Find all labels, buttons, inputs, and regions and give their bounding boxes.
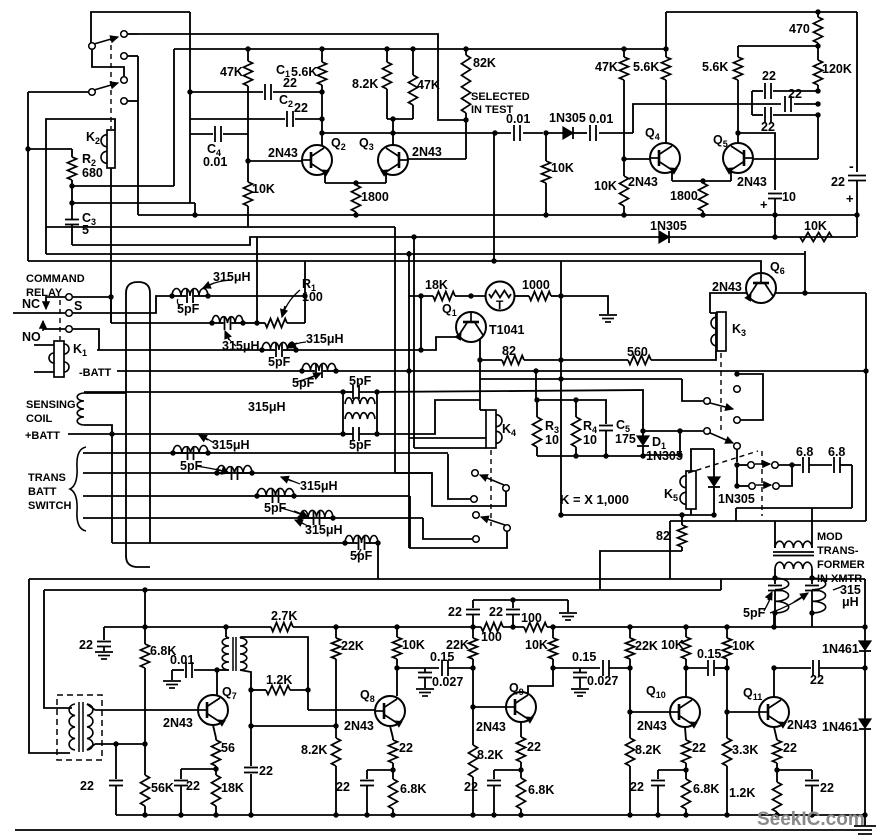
node xyxy=(492,130,497,135)
transistor Q10 xyxy=(670,697,700,727)
node xyxy=(463,117,468,122)
node xyxy=(734,371,739,376)
node xyxy=(815,43,820,48)
svg-text:680: 680 xyxy=(82,166,103,180)
diode 1N461 a xyxy=(859,641,871,650)
wire SWA pole xyxy=(395,473,506,506)
tank right coil xyxy=(812,578,826,613)
node xyxy=(627,665,632,670)
wire to caps xyxy=(633,104,781,133)
contact pole SWA xyxy=(503,485,510,492)
wire R2 line xyxy=(72,185,174,187)
wire top right line xyxy=(666,11,857,13)
wire n2 east xyxy=(243,322,257,324)
node xyxy=(663,46,668,51)
resistor 82K xyxy=(465,49,467,55)
resistor 2.7K xyxy=(271,623,293,632)
wire Q8 emitter xyxy=(390,726,393,738)
ground right xyxy=(864,815,866,826)
node xyxy=(724,665,729,670)
LC unit n3 xyxy=(259,347,264,352)
resistor 47K c xyxy=(623,49,625,57)
wire xyxy=(736,449,738,462)
wire y350 line xyxy=(97,349,262,351)
dashed vert xyxy=(761,451,763,516)
svg-text:22: 22 xyxy=(448,605,462,619)
node Q4 base xyxy=(621,156,626,161)
wire K1 leads xyxy=(34,344,54,346)
svg-text:5pF: 5pF xyxy=(349,374,372,388)
node xyxy=(491,812,496,817)
node xyxy=(410,46,415,51)
node xyxy=(187,89,192,94)
node xyxy=(142,624,147,629)
resistor 56 xyxy=(212,740,221,766)
svg-text:470: 470 xyxy=(789,22,810,36)
wire C3 line xyxy=(72,202,195,204)
contact xyxy=(748,462,755,469)
capacitor 6.8 b xyxy=(833,457,835,473)
wire Q4 base xyxy=(624,158,650,160)
svg-text:2.7K: 2.7K xyxy=(271,609,297,623)
pointer u3cap xyxy=(281,508,305,516)
contact xyxy=(66,294,73,301)
svg-text:5.6K: 5.6K xyxy=(291,65,317,79)
node xyxy=(406,368,411,373)
svg-text:22: 22 xyxy=(762,69,776,83)
pointer n2 xyxy=(226,333,236,346)
capacitor 22 q9c xyxy=(493,770,495,779)
wire K4 top xyxy=(480,409,486,411)
svg-text:8.2K: 8.2K xyxy=(635,743,661,757)
node xyxy=(248,812,253,817)
node xyxy=(394,624,399,629)
switch SWA contact xyxy=(472,470,479,477)
node xyxy=(774,767,779,772)
svg-text:175: 175 xyxy=(615,432,636,446)
resistor 10K q10 xyxy=(685,627,687,637)
svg-text:5pF: 5pF xyxy=(177,302,200,316)
arrow NC xyxy=(45,300,47,309)
node xyxy=(558,293,563,298)
resistor 6.8K in xyxy=(144,590,146,644)
capacitor 0.01 b xyxy=(589,125,591,141)
svg-text:82K: 82K xyxy=(473,56,496,70)
svg-text:8.2K: 8.2K xyxy=(301,743,327,757)
transformer T1 box xyxy=(57,695,102,760)
node xyxy=(470,624,475,629)
wire Q5 emitter xyxy=(730,170,732,181)
transistor Q6 xyxy=(746,273,776,303)
svg-text:22: 22 xyxy=(831,175,845,189)
resistor 8.2K q8 xyxy=(335,726,337,738)
dashed diag xyxy=(688,451,758,473)
resistor 82 xyxy=(502,356,524,365)
wire stair drop2 xyxy=(669,521,671,579)
node xyxy=(333,723,338,728)
wire x414 xyxy=(413,237,415,448)
wire ladder1 xyxy=(83,452,448,454)
relay K3 xyxy=(717,312,726,351)
wire line C xyxy=(174,48,666,50)
dashed K3 link xyxy=(720,353,722,432)
svg-text:8.2K: 8.2K xyxy=(352,77,378,91)
wire Q7 emitter xyxy=(213,725,216,738)
resistor 18K q7 xyxy=(212,775,221,806)
svg-text:18K: 18K xyxy=(425,278,448,292)
resistor 22K q10 xyxy=(629,627,631,638)
node xyxy=(683,812,688,817)
capacitor 0.15 b xyxy=(602,660,604,676)
svg-text:5pF: 5pF xyxy=(350,549,373,563)
wire 18K line xyxy=(409,295,433,297)
wire 10 stub xyxy=(774,215,776,237)
transistor Q5 xyxy=(723,143,753,173)
svg-text:8.2K: 8.2K xyxy=(477,748,503,762)
resistor 5.6K c xyxy=(662,57,671,80)
svg-text:10: 10 xyxy=(545,433,559,447)
wire y46 xyxy=(738,45,818,47)
resistor R2 xyxy=(71,149,73,157)
node R2 feed xyxy=(25,146,30,151)
pointer arrow xyxy=(764,594,772,611)
dashed K4 link xyxy=(490,450,492,526)
wire lineC drop xyxy=(173,49,175,186)
svg-text:T: T xyxy=(496,298,504,312)
wire n7 drop xyxy=(377,543,379,579)
transistor Q8 xyxy=(375,696,405,726)
svg-text:56: 56 xyxy=(221,741,235,755)
wire line B xyxy=(138,34,466,120)
node xyxy=(418,293,423,298)
LC unit u3 xyxy=(254,493,259,498)
wire to R2 xyxy=(28,148,72,150)
wire S contact xyxy=(13,312,66,314)
wire R1 up xyxy=(304,296,306,323)
svg-text:82: 82 xyxy=(656,529,670,543)
wire Q5 base xyxy=(817,115,819,159)
wire drop x666 xyxy=(665,12,667,57)
node xyxy=(815,88,820,93)
capacitor 6.8 a xyxy=(802,457,804,473)
wire T1 sec top xyxy=(87,704,95,710)
brace xyxy=(70,447,86,531)
node xyxy=(734,462,739,467)
svg-text:315μH: 315μH xyxy=(300,479,338,493)
wire hook q8 xyxy=(367,769,393,771)
node xyxy=(815,9,820,14)
relay K5 xyxy=(686,471,696,509)
node xyxy=(700,212,705,217)
node xyxy=(390,767,395,772)
switch S2 pivot xyxy=(89,89,96,96)
contact xyxy=(121,98,128,105)
svg-text:2N43: 2N43 xyxy=(344,719,374,733)
pointer arrow xyxy=(770,595,806,613)
resistor 56K xyxy=(141,775,150,806)
svg-text:10K: 10K xyxy=(252,182,275,196)
wire K3 contact hook xyxy=(737,374,763,420)
wire T2 sec bot xyxy=(240,670,251,690)
svg-text:6.8K: 6.8K xyxy=(528,783,554,797)
node xyxy=(302,293,307,298)
ground xyxy=(571,688,589,690)
svg-text:0.01: 0.01 xyxy=(203,155,227,169)
node xyxy=(683,767,688,772)
svg-text:1000: 1000 xyxy=(522,278,550,292)
resistor 100 a xyxy=(481,623,503,632)
contact S xyxy=(66,310,73,317)
svg-text:μH: μH xyxy=(842,595,859,609)
wire Q9 emitter xyxy=(520,722,522,737)
wire +BATT drop xyxy=(111,434,113,543)
node Q2 base xyxy=(245,158,250,163)
diode 1N305 xyxy=(546,132,563,134)
ground xyxy=(599,314,617,316)
svg-text:1N305: 1N305 xyxy=(646,449,683,463)
LC unit u1 xyxy=(170,450,175,455)
node xyxy=(558,376,563,381)
wire y261 line xyxy=(28,261,761,273)
wire Q4 emitter xyxy=(671,170,673,181)
wire y668 d xyxy=(774,667,811,669)
wire ladder3 xyxy=(83,495,410,497)
capacitor 22 q10c xyxy=(657,770,659,779)
relay K2 xyxy=(107,130,115,168)
wire contact drops xyxy=(127,55,138,57)
resistor 5.6K xyxy=(321,49,323,62)
wire y379 line xyxy=(480,378,682,380)
resistor 560 xyxy=(628,356,651,365)
svg-text:10: 10 xyxy=(583,433,597,447)
node xyxy=(543,212,548,217)
node xyxy=(319,46,324,51)
node xyxy=(809,812,814,817)
contact pole1 xyxy=(704,398,711,405)
svg-text:47K: 47K xyxy=(595,60,618,74)
contact xyxy=(121,77,128,84)
wire left edge a xyxy=(29,579,70,753)
LC unit u4 xyxy=(297,515,302,520)
node xyxy=(683,624,688,629)
sensing coil xyxy=(77,393,84,425)
wire caps loop xyxy=(751,91,753,115)
pointer u3 xyxy=(284,478,300,484)
node xyxy=(677,452,682,457)
capacitor 22 q7e xyxy=(180,769,182,779)
capacitor 10 xyxy=(768,193,782,195)
node xyxy=(411,234,416,239)
node xyxy=(248,687,253,692)
MOD transformer xyxy=(774,521,776,548)
node xyxy=(109,431,114,436)
wire Q9 collector xyxy=(528,668,553,694)
node xyxy=(735,130,740,135)
node xyxy=(854,212,859,217)
svg-text:10K: 10K xyxy=(525,638,548,652)
capacitor 22 top xyxy=(752,90,763,92)
wire big verticals xyxy=(126,556,150,567)
wire contact to line B xyxy=(128,33,138,35)
ground xyxy=(559,612,577,614)
node xyxy=(550,665,555,670)
svg-text:5pF: 5pF xyxy=(180,459,203,473)
transistor Q7 xyxy=(198,695,228,725)
wire x536 riser xyxy=(535,371,537,400)
transformer T2 xyxy=(225,627,227,637)
wire tank to rail xyxy=(774,613,776,627)
pointer R1 xyxy=(283,290,300,314)
node xyxy=(418,347,423,352)
LC unit n1 xyxy=(169,293,174,298)
svg-text:+: + xyxy=(760,197,768,212)
svg-text:2N43: 2N43 xyxy=(712,280,742,294)
capacitor 22 in xyxy=(115,744,117,779)
node xyxy=(390,116,395,121)
capacitor 22 q7c xyxy=(250,726,252,766)
svg-text:2N43: 2N43 xyxy=(163,716,193,730)
wire K5 top xyxy=(691,449,714,471)
arm pole1 xyxy=(710,403,733,409)
wire ladder2 xyxy=(83,472,432,474)
wire K2 bottom xyxy=(110,168,112,323)
node xyxy=(213,766,218,771)
wire to gnd xyxy=(561,296,608,314)
resistor 22 q10e xyxy=(682,740,691,763)
node xyxy=(390,812,395,817)
wire Q6 collector xyxy=(776,292,866,294)
wire SWB NC xyxy=(423,518,472,539)
contact xyxy=(749,483,756,490)
svg-text:10K: 10K xyxy=(551,161,574,175)
wire Q11 base xyxy=(727,711,759,713)
pointer u1cap xyxy=(196,466,226,472)
resistor 10K xyxy=(247,161,249,182)
resistor 22 q11e xyxy=(773,740,782,763)
wire xyxy=(472,668,474,707)
svg-text:22: 22 xyxy=(186,779,200,793)
resistor 82 K5 xyxy=(681,515,683,525)
wire xyxy=(778,464,801,466)
svg-text:2N43: 2N43 xyxy=(476,720,506,734)
capacitor 22 right xyxy=(848,175,866,177)
svg-text:22: 22 xyxy=(399,741,413,755)
resistor 1800 xyxy=(352,185,361,212)
svg-text:6.8: 6.8 xyxy=(796,445,813,459)
node xyxy=(862,812,867,817)
contact pole2 xyxy=(704,428,711,435)
svg-text:47K: 47K xyxy=(220,65,243,79)
svg-text:56K: 56K xyxy=(151,781,174,795)
pointer n1cap xyxy=(177,299,180,307)
svg-text:22: 22 xyxy=(788,87,802,101)
node xyxy=(862,624,867,629)
capacitor 22 out xyxy=(812,660,814,676)
wire Q8 base xyxy=(307,690,309,710)
wire rail mid xyxy=(293,626,481,628)
node xyxy=(627,624,632,629)
pointer n7cap xyxy=(356,549,361,556)
wire Q11 collector xyxy=(773,668,775,697)
capacitor 22 bot xyxy=(752,114,763,116)
svg-text:SWITCH: SWITCH xyxy=(28,500,71,512)
svg-text:22: 22 xyxy=(630,780,644,794)
resistor 100 b xyxy=(524,623,547,632)
LC unit n2 xyxy=(209,320,214,325)
wire row2 hook xyxy=(779,465,792,486)
wire SWB pole xyxy=(410,496,507,548)
node xyxy=(178,812,183,817)
svg-text:100: 100 xyxy=(521,611,542,625)
wire T2 sec top xyxy=(240,637,308,690)
node xyxy=(700,178,705,183)
svg-text:5.6K: 5.6K xyxy=(633,60,659,74)
svg-text:10K: 10K xyxy=(594,179,617,193)
resistor 8.2K xyxy=(386,49,388,62)
wire x852 drop xyxy=(851,465,853,508)
node xyxy=(518,812,523,817)
node xyxy=(192,212,197,217)
resistor 6.8K q8 xyxy=(389,779,398,809)
svg-text:SENSING: SENSING xyxy=(26,399,76,411)
node xyxy=(108,294,113,299)
pointer u1 xyxy=(202,436,214,443)
svg-text:FORMER: FORMER xyxy=(817,559,865,571)
relay K4 xyxy=(486,410,496,448)
svg-text:2N43: 2N43 xyxy=(737,175,767,189)
node xyxy=(245,46,250,51)
svg-text:0.15: 0.15 xyxy=(697,647,721,661)
node xyxy=(69,183,74,188)
switch SWA arm xyxy=(480,475,504,485)
node xyxy=(724,812,729,817)
wire y434 east xyxy=(377,400,480,434)
svg-text:22: 22 xyxy=(79,638,93,652)
svg-text:T1041: T1041 xyxy=(489,323,524,337)
resistor 1000 xyxy=(529,292,551,301)
svg-text:120K: 120K xyxy=(822,62,852,76)
transistor Q4 xyxy=(650,143,680,173)
ground xyxy=(163,680,181,682)
resistor 5.6K d xyxy=(737,46,739,57)
node xyxy=(621,212,626,217)
transistor Q9 xyxy=(506,692,536,722)
svg-text:1800: 1800 xyxy=(670,189,698,203)
svg-text:315μH: 315μH xyxy=(305,523,343,537)
contact xyxy=(734,443,741,450)
capacitor 22 gnd-a xyxy=(103,627,105,640)
svg-text:22: 22 xyxy=(527,740,541,754)
wire xyxy=(864,668,866,719)
wire Q3 collector xyxy=(387,118,413,120)
capacitor 0.15 a xyxy=(441,660,443,676)
node xyxy=(772,575,777,580)
svg-text:22: 22 xyxy=(336,780,350,794)
node xyxy=(319,116,324,121)
resistor 10K q9 xyxy=(552,627,554,638)
node xyxy=(254,320,259,325)
svg-text:5: 5 xyxy=(82,223,89,237)
svg-text:NO: NO xyxy=(22,330,41,344)
wire pole2 feed xyxy=(643,430,703,432)
wire Q3 emitter xyxy=(385,173,387,183)
wire y254 line xyxy=(46,253,805,255)
double LC n5 xyxy=(340,389,345,394)
wire xyxy=(455,295,486,297)
switch SWB arm xyxy=(481,517,505,525)
wire rows link xyxy=(736,465,738,486)
resistor 1.2K q11 xyxy=(776,763,778,782)
